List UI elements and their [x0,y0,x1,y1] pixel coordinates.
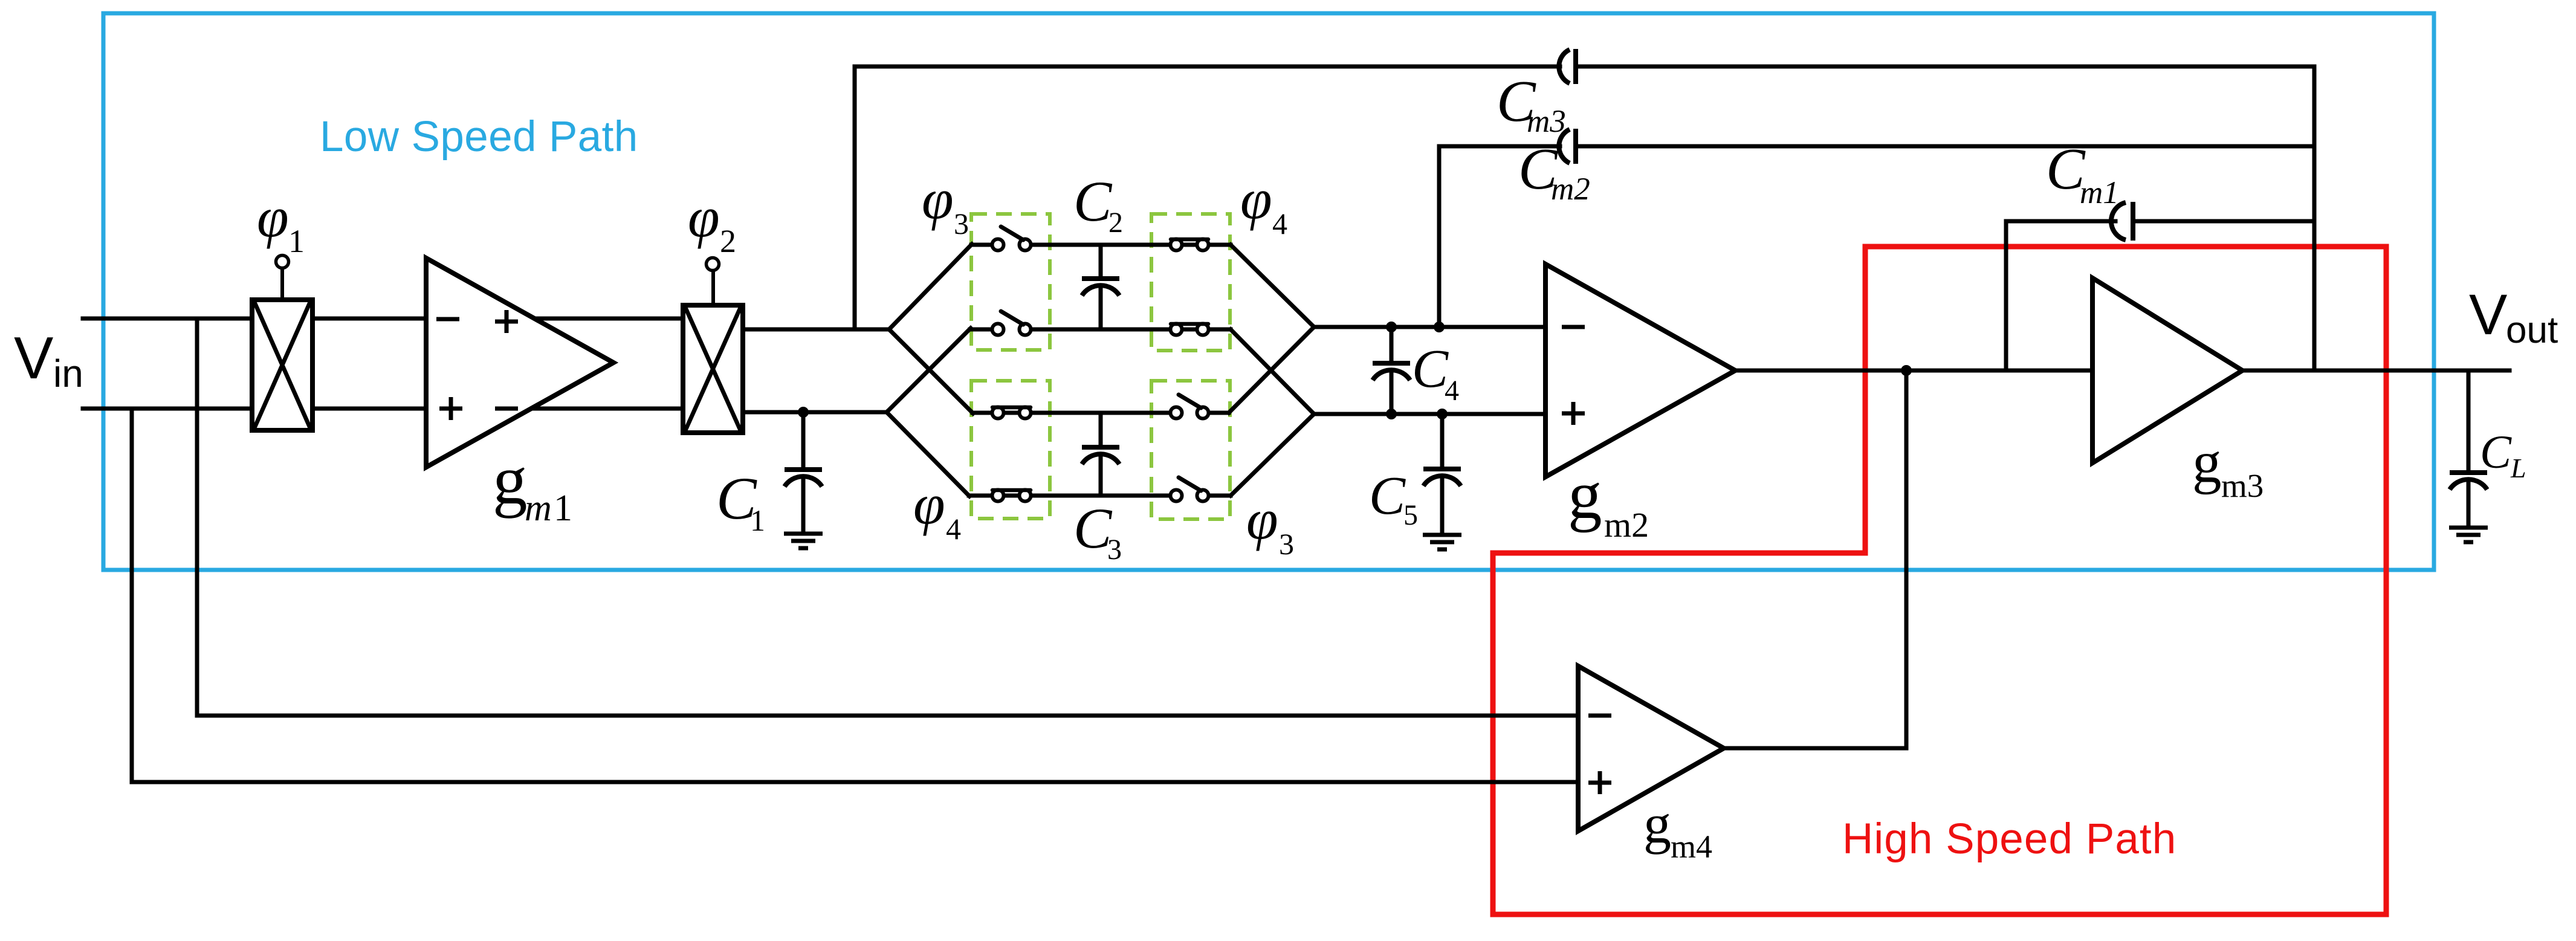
svg-text:C: C [1369,466,1406,526]
svg-text:5: 5 [1403,499,1418,531]
svg-text:φ: φ [257,185,289,249]
svg-text:2: 2 [1108,207,1123,239]
svg-text:out: out [2506,309,2558,351]
svg-text:φ: φ [913,472,945,536]
svg-text:1: 1 [554,488,572,529]
svg-text:m1: m1 [2080,175,2119,210]
svg-text:m2: m2 [1604,505,1649,545]
svg-text:2: 2 [720,223,736,259]
svg-text:1: 1 [750,503,765,537]
svg-text:V: V [2469,283,2507,347]
svg-text:3: 3 [954,207,969,241]
svg-text:High Speed Path: High Speed Path [1842,815,2176,863]
svg-text:4: 4 [946,512,961,546]
svg-text:1: 1 [288,223,305,259]
svg-text:φ: φ [922,167,954,231]
svg-text:φ: φ [1246,487,1278,551]
svg-text:3: 3 [1279,527,1294,561]
svg-text:L: L [2510,453,2526,483]
svg-text:m3: m3 [2221,467,2264,504]
svg-text:4: 4 [1445,375,1459,407]
svg-text:C: C [1073,169,1113,233]
svg-text:g: g [2192,430,2222,494]
svg-text:C: C [1412,339,1449,399]
svg-text:C: C [2480,425,2512,478]
svg-text:3: 3 [1107,534,1122,566]
svg-text:m: m [525,488,552,529]
svg-text:Low Speed Path: Low Speed Path [320,113,638,161]
svg-text:g: g [1568,458,1602,533]
svg-text:in: in [53,352,83,395]
svg-text:φ: φ [688,185,720,249]
svg-text:m3: m3 [1527,104,1566,139]
svg-text:g: g [1643,793,1671,855]
svg-text:m4: m4 [1671,829,1712,865]
svg-text:4: 4 [1272,207,1287,241]
svg-text:g: g [493,442,528,519]
svg-text:φ: φ [1240,167,1272,231]
svg-text:V: V [14,325,53,391]
svg-text:m2: m2 [1551,172,1590,207]
